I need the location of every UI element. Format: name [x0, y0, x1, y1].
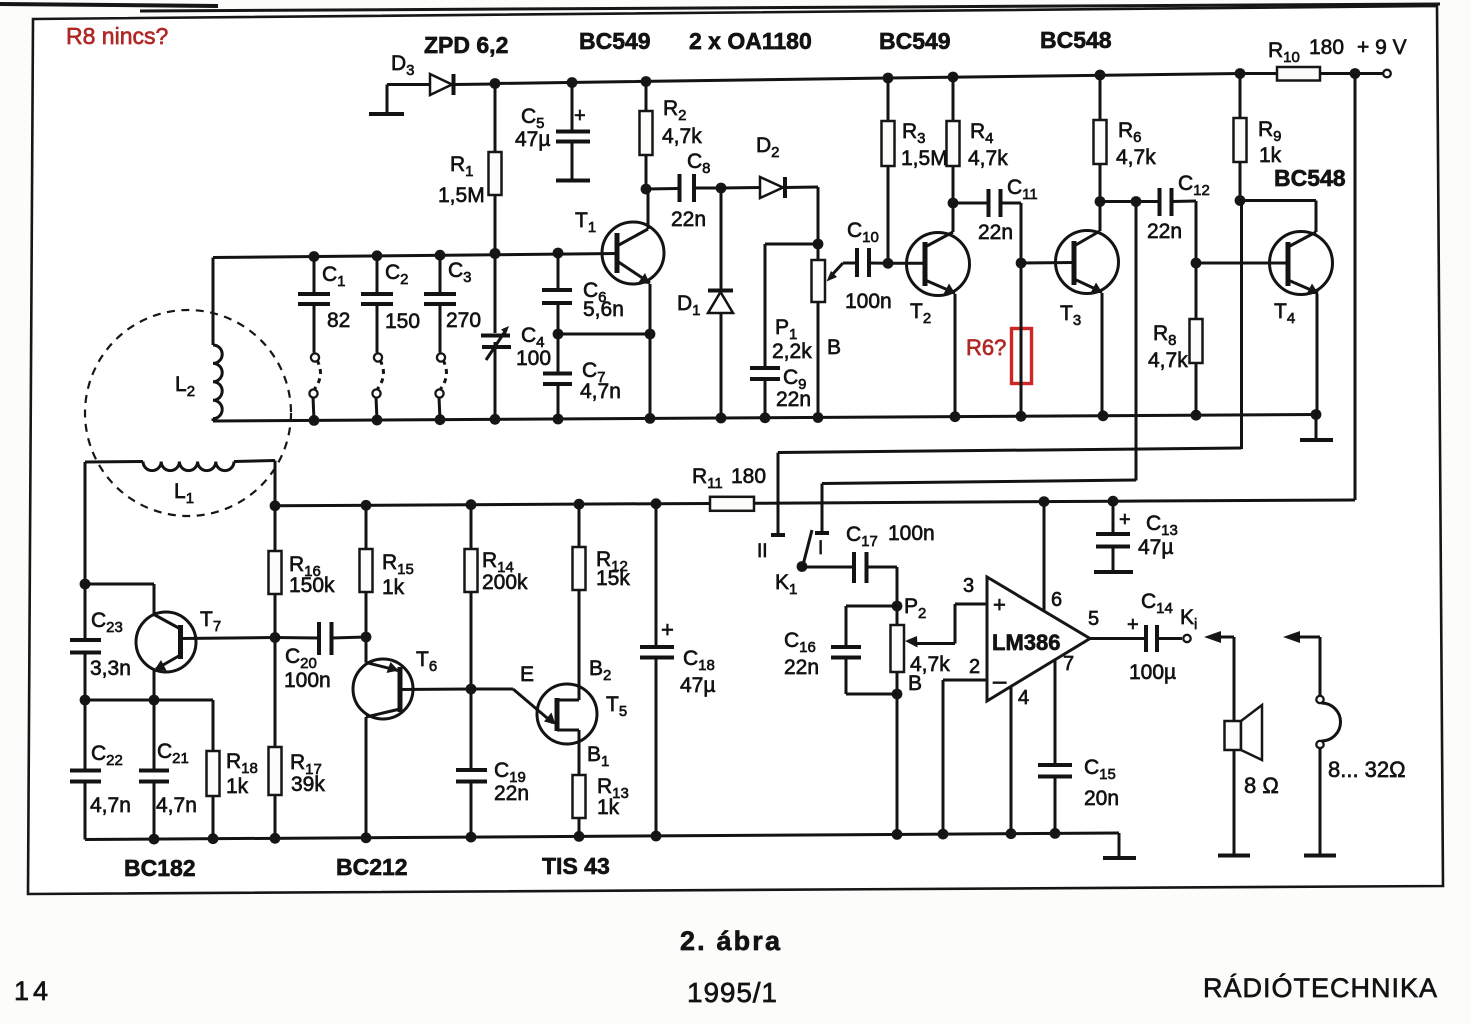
svg-text:BC549: BC549 [879, 28, 951, 54]
svg-text:2,2k: 2,2k [772, 340, 812, 363]
svg-text:22n: 22n [1147, 220, 1182, 243]
svg-text:1k: 1k [1259, 144, 1282, 167]
svg-text:3: 3 [963, 575, 974, 597]
svg-text:100: 100 [516, 347, 551, 370]
svg-text:B: B [908, 672, 922, 695]
svg-text:270: 270 [446, 309, 481, 332]
svg-text:4,7n: 4,7n [580, 380, 621, 403]
svg-text:4,7n: 4,7n [156, 794, 197, 817]
svg-text:1,5M: 1,5M [438, 184, 485, 207]
svg-text:1k: 1k [382, 576, 405, 599]
svg-text:4,7n: 4,7n [90, 794, 131, 817]
svg-text:150: 150 [385, 310, 420, 333]
svg-text:39k: 39k [291, 773, 325, 796]
svg-text:8... 32Ω: 8... 32Ω [1328, 757, 1406, 782]
svg-text:5: 5 [1088, 608, 1099, 630]
svg-text:22n: 22n [784, 656, 819, 679]
svg-text:+: + [1127, 614, 1139, 636]
svg-text:1995/1: 1995/1 [687, 977, 777, 1008]
svg-text:100n: 100n [888, 522, 935, 545]
svg-text:4,7k: 4,7k [1148, 349, 1188, 372]
svg-text:47µ: 47µ [1138, 536, 1173, 559]
svg-text:1,5M: 1,5M [901, 147, 948, 170]
svg-text:BC212: BC212 [336, 854, 408, 880]
svg-text:II: II [757, 541, 768, 562]
svg-text:+: + [1119, 509, 1131, 531]
svg-text:5,6n: 5,6n [583, 298, 624, 321]
svg-text:BC548: BC548 [1274, 165, 1346, 191]
svg-text:R8 nincs?: R8 nincs? [66, 23, 168, 49]
svg-text:+: + [661, 617, 674, 642]
svg-text:47µ: 47µ [515, 128, 550, 151]
svg-text:E: E [520, 663, 534, 686]
svg-text:TIS 43: TIS 43 [542, 853, 610, 879]
svg-text:2: 2 [969, 656, 980, 678]
svg-text:+ 9 V: + 9 V [1357, 36, 1407, 59]
svg-text:4: 4 [1018, 687, 1029, 709]
svg-text:1k: 1k [597, 796, 620, 819]
svg-text:200k: 200k [482, 571, 528, 594]
svg-text:100µ: 100µ [1129, 661, 1176, 684]
svg-text:22n: 22n [671, 208, 706, 231]
svg-text:3,3n: 3,3n [90, 657, 131, 680]
svg-text:180: 180 [1309, 36, 1344, 59]
svg-text:I: I [818, 538, 823, 559]
svg-text:LM386: LM386 [992, 630, 1060, 655]
svg-text:BC549: BC549 [579, 28, 651, 54]
svg-text:150k: 150k [289, 574, 335, 597]
svg-text:6: 6 [1051, 589, 1062, 611]
svg-text:R6?: R6? [966, 335, 1006, 360]
svg-text:15k: 15k [596, 567, 630, 590]
svg-text:22n: 22n [776, 388, 811, 411]
svg-text:82: 82 [327, 309, 350, 332]
svg-text:BC182: BC182 [124, 855, 196, 881]
svg-text:47µ: 47µ [680, 674, 715, 697]
svg-text:180: 180 [731, 465, 766, 488]
svg-text:4,7k: 4,7k [968, 147, 1008, 170]
svg-text:100n: 100n [284, 669, 331, 692]
svg-text:22n: 22n [978, 221, 1013, 244]
svg-text:2 x OA1180: 2 x OA1180 [689, 28, 812, 54]
svg-text:BC548: BC548 [1040, 27, 1112, 53]
svg-text:20n: 20n [1084, 787, 1119, 810]
svg-text:4,7k: 4,7k [662, 125, 702, 148]
svg-text:1k: 1k [226, 775, 249, 798]
svg-text:+: + [574, 105, 586, 127]
svg-text:B: B [827, 336, 841, 359]
svg-text:4,7k: 4,7k [1116, 146, 1156, 169]
svg-text:+: + [993, 592, 1006, 617]
svg-text:–: – [993, 668, 1007, 695]
svg-text:8 Ω: 8 Ω [1244, 773, 1279, 798]
svg-text:RÁDIÓTECHNIKA: RÁDIÓTECHNIKA [1203, 972, 1437, 1003]
svg-text:7: 7 [1063, 653, 1074, 675]
svg-text:ZPD 6,2: ZPD 6,2 [424, 32, 508, 58]
svg-text:22n: 22n [494, 782, 529, 805]
svg-text:100n: 100n [845, 290, 892, 313]
